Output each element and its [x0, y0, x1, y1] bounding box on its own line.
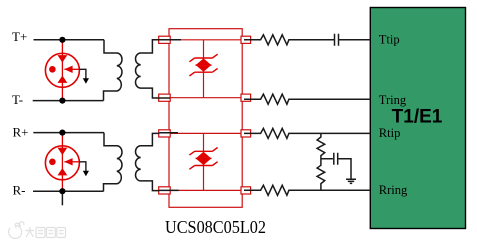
svg-text:T+: T+	[12, 29, 27, 44]
svg-text:Ttip: Ttip	[379, 32, 400, 46]
svg-text:Rring: Rring	[379, 183, 408, 197]
svg-text:R+: R+	[13, 125, 29, 140]
svg-text:UCS08C05L02: UCS08C05L02	[165, 217, 266, 237]
svg-text:R-: R-	[13, 183, 26, 198]
svg-text:Rtip: Rtip	[379, 126, 401, 140]
svg-text:Tring: Tring	[379, 93, 407, 107]
svg-text:T1/E1: T1/E1	[392, 106, 443, 127]
svg-text:T-: T-	[12, 92, 23, 107]
